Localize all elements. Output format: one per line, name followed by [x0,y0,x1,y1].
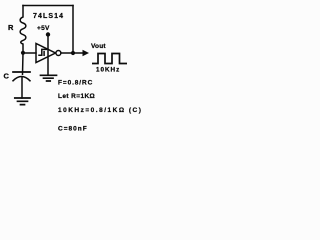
svg-text:C: C [4,72,10,81]
svg-text:F=0.8/RC: F=0.8/RC [58,80,93,87]
op-amp U1 schmitt inverter triangle [36,44,56,63]
node A junction dot (R/C/input) [21,51,25,55]
inverter output bubble [56,51,61,56]
svg-text:Let R=1KΩ: Let R=1KΩ [58,93,95,100]
output arrowhead [83,50,90,57]
wire right rail [72,6,74,54]
wire top rail [23,5,73,7]
capacitor C top plate [13,71,30,73]
svg-text:74LS14: 74LS14 [33,13,64,20]
capacitor C curved plate [13,77,30,81]
wire node A to capacitor [22,53,25,74]
wire +5V supply to ground through gate [47,35,49,75]
svg-text:R: R [8,23,14,32]
resistor R [20,6,26,53]
node B junction dot (output/right rail) [71,51,75,55]
wire output [61,52,84,54]
wire capacitor to ground [21,78,23,99]
+5V terminal dot [46,32,50,36]
waveform 10KHz square wave [92,54,127,64]
svg-text:10KHz: 10KHz [96,67,120,74]
ground (gate) [41,75,57,81]
hysteresis symbol [39,49,46,55]
svg-text:Vout: Vout [91,43,106,50]
svg-text:C=80nF: C=80nF [58,126,88,133]
svg-text:10KHz=0.8/1KΩ (C): 10KHz=0.8/1KΩ (C) [58,107,142,114]
wire input [23,52,36,54]
ground (capacitor) [15,98,30,105]
svg-text:+5V: +5V [37,25,50,32]
